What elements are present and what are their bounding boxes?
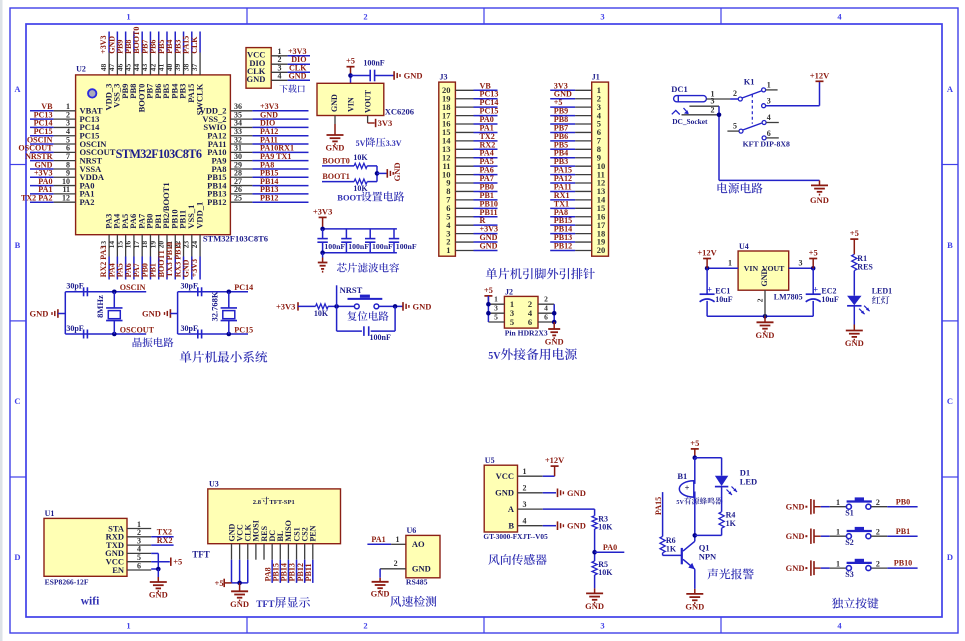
svg-text:CLK: CLK [190,36,199,54]
U2 pin 41 PB5 with net label PB5 [157,32,172,99]
svg-text:ESP8266-12F: ESP8266-12F [45,577,89,586]
svg-text:1K: 1K [726,519,737,528]
module U6 RS485 body [406,526,440,586]
svg-text:GND: GND [480,241,498,250]
svg-text:RX2: RX2 [157,536,173,545]
capacitor C1 100nF decoupling [317,229,345,253]
DC1 pin 3 [689,97,719,107]
net label PC15 (32.768K cell) [234,325,253,334]
svg-text:+5: +5 [346,56,355,66]
U2 pin 26 PB13 with net label PB13 [207,185,308,199]
connector J2 body [504,288,538,329]
U2 pin 45 PB8 with net label PB8 [124,32,139,99]
label 独立按键 [832,598,879,609]
svg-text:GND: GND [756,330,775,340]
svg-text:1: 1 [836,498,840,507]
svg-text:LED1: LED1 [872,286,892,295]
regulator U4 LM7805 body [738,242,803,301]
svg-text:GND: GND [786,502,805,512]
DC socket barrel [674,96,707,102]
svg-text:PB1: PB1 [896,527,910,536]
U2 pin 46 PB9 with net label PB9 [115,32,130,99]
net label OSCIN (8MHz cell) [120,283,146,292]
capacitor 30pF top (8MHz cell) [66,282,87,297]
J3 pin 5 net PB11 [446,208,497,222]
U2 pin 13 PA3 with net label RX2 PA3 [99,214,114,280]
U2 pin 48 VDD_3 with net label +3V3 [99,32,114,111]
svg-text:1: 1 [494,295,498,304]
svg-text:D: D [947,552,953,562]
J1 pin 9 net PB4 [550,149,601,163]
svg-text:EN: EN [112,565,125,575]
U2 pin 11 PA1 with net label PA1 [30,185,94,199]
op-amp U2 STM32F103C8T6 body [76,65,268,244]
net label NRST with wire [337,285,363,306]
wire DC1 pins 2-3 junction [717,106,722,180]
svg-text:NPN: NPN [699,551,717,561]
svg-text:J3: J3 [440,73,448,82]
U2 pin 3 PC14 with net label PC14 [30,119,100,133]
power port +5 wifi [171,557,182,567]
U2 pin 5 OSCIN with net label OSCIN [27,135,107,149]
wire BOOT1 [322,181,354,183]
svg-text:5: 5 [733,121,737,130]
svg-text:PC15: PC15 [234,325,253,334]
svg-text:24: 24 [190,241,199,249]
svg-text:PB12: PB12 [207,197,226,207]
svg-text:2: 2 [733,89,737,98]
wire crystal bottom (8MHz cell) [65,332,146,337]
svg-text:4: 4 [544,304,548,313]
J3 pin 15 net PA1 [442,123,498,137]
U2 pin 31 PA10 with net label PA10RX1 [207,144,308,158]
svg-text:1: 1 [836,559,840,568]
wire LED branch [721,458,723,476]
svg-text:+: + [685,482,690,492]
K1 terminal 2 and blade [733,89,761,101]
module U3 TFT body [208,480,341,544]
svg-text:100nF: 100nF [348,242,369,251]
svg-text:GND: GND [845,338,864,348]
label Pin HDR2X3 [505,329,548,338]
U2 pin 6 OSCOUT with net label OSCOUT [18,144,115,158]
buzzer B1 [677,471,693,497]
U2 pin 29 PA8 with net label PA8 [212,160,309,174]
J3 pin 7 net PB1 [446,191,497,205]
transistor Q1 NPN [682,541,717,569]
U1 pin 2 RXD [106,528,152,542]
ground LED1 [845,325,864,349]
svg-text:C: C [947,396,953,406]
wire base [663,553,682,556]
svg-text:GND: GND [142,309,161,319]
svg-text:U1: U1 [45,509,55,518]
wire R1 to LED1 [853,271,855,296]
wire U1 GND bend [151,553,158,569]
wire +5 vertical J2 [486,296,491,322]
svg-text:A: A [947,84,954,94]
K1 terminal 4 [762,113,779,124]
svg-text:TFT: TFT [256,600,275,610]
wire U5 VCC to +12V [543,475,555,477]
resistor R4 1K [719,511,737,529]
resistor 10K BOOT0 [353,153,368,169]
svg-text:S3: S3 [845,570,853,579]
svg-text:6: 6 [544,312,548,321]
power port GND pin2 [558,488,586,498]
U2 pin 37 SWCLK with net label CLK [190,32,205,116]
svg-text:10K: 10K [314,309,329,318]
svg-text:OSCIN: OSCIN [120,283,146,292]
svg-text:B: B [947,240,953,250]
svg-text:GND: GND [30,309,49,319]
svg-text:+3V3: +3V3 [276,301,295,311]
net label PC14 (32.768K cell) [234,283,253,292]
wire crystal top (32.768K cell) [178,290,248,295]
svg-text:8MHz: 8MHz [95,295,105,318]
U2 pin 2 PC13 with net label PC13 [30,110,99,124]
J3 pin 1 net GND [446,241,497,255]
J3 pin 4 net R [446,216,497,230]
push button S2 net PB1 [786,527,918,547]
DC1 pin 2 [682,105,720,115]
J3 pin 17 net PC15 [442,107,498,121]
svg-text:30pF: 30pF [66,282,83,291]
svg-text:U4: U4 [739,242,749,251]
wire D1 to R4 [721,487,723,512]
svg-text:GND: GND [230,599,249,609]
wire R5 to gnd [594,575,596,588]
svg-text:+5: +5 [484,285,493,295]
svg-text:3: 3 [600,12,604,22]
J1 pin 19 net PB13 [550,233,605,247]
U2 pin 38 PA15 with net label PA15 [182,32,197,103]
wire DC1 pin1 to switch [730,98,738,100]
svg-text:2: 2 [876,527,880,536]
module U1 ESP8266-12F body [44,509,127,586]
svg-text:GND: GND [567,521,586,531]
U4 pin 2 gnd [755,290,765,316]
svg-text:PB12: PB12 [554,241,572,250]
svg-text:5V: 5V [356,139,366,148]
svg-text:AO: AO [412,539,425,549]
label 单片机最小系统 [180,351,268,363]
J3 pin 11 net PA5 [442,157,497,171]
U2 pin 16 PA6 with net label PA6 [124,214,139,280]
connector download header body [246,48,271,89]
label BOOT设置电路 [337,191,404,202]
U2 pin 7 NRST with net label NRSTR [25,152,102,166]
svg-text:GND: GND [545,337,564,347]
svg-text:+12V: +12V [545,455,565,465]
svg-text:100nF: 100nF [370,333,391,342]
wire regulator GND down [334,116,336,130]
J3 pin 19 net PC13 [442,90,498,104]
U2 pin 43 PB7 with net label PB7 [140,32,155,99]
push button S1 net PB0 [786,497,918,517]
svg-text:3: 3 [523,500,527,509]
label wifi [81,596,100,608]
svg-text:+5: +5 [173,557,182,567]
label 单片机引脚外引排针 [486,268,595,279]
U2 pin 27 PB14 with net label PB14 [207,177,308,191]
J2 pin 2 [528,295,554,310]
wire crystal bottom (32.768K cell) [178,332,248,337]
J3 pin 13 net RX2 [442,140,498,154]
label DC_Socket [672,117,708,126]
label 风向传感器 [488,554,546,565]
designator DC1 [671,84,688,94]
svg-text:VCC: VCC [496,471,514,481]
switch K1 designator [744,77,755,87]
U6 pin 2 GND [380,559,406,578]
J1 pin 16 net PA8 [550,208,605,222]
svg-text:+5: +5 [690,438,699,448]
svg-text:NRST: NRST [340,285,363,295]
download header pin 1 VCC net +3V3 [247,47,310,60]
power port GND crystal (32.768K cell) [142,309,178,319]
capacitor 100nF at regulator input [363,59,384,82]
svg-text:1: 1 [126,12,130,22]
push button S3 net PB10 [786,559,918,579]
connector J1 pin header body [592,73,609,257]
svg-text:D: D [14,552,20,562]
U2 pin 47 VSS_3 with net label GND [107,32,122,108]
label 5V外接备用电源 [488,348,577,362]
svg-text:+3V3: +3V3 [190,259,199,277]
svg-text:1K: 1K [666,545,677,554]
svg-text:1: 1 [767,81,771,90]
U3 pin BL net PB15 [271,531,285,583]
U3 pin CS2 net PB12 [296,527,310,583]
svg-text:25: 25 [234,193,242,202]
svg-text:TFT: TFT [192,550,210,560]
U2 pin 39 PB3 with net label PB3 [173,32,188,99]
U1 pin 3 TXD [106,536,151,550]
U3 pin MOSI [252,520,261,560]
svg-text:OSCOUT: OSCOUT [120,325,155,334]
U2 pin 22 PB11 with net label RX3 PB11 [173,210,188,280]
DC1 pin 1 [706,89,730,99]
label 5V有源蜂鸣器 [676,497,722,506]
U3 pin PEN net PB11 [304,525,318,583]
wire VIN to +5 [348,73,353,83]
power flag +5 alarm [690,438,699,458]
svg-text:12: 12 [62,193,70,202]
J1 pin 15 net TX1 [550,199,605,213]
ground filter caps [318,253,328,272]
wire BOOT0 res to junction [367,165,377,167]
U2 pin 10 PA0 with net label PA0 [30,177,94,191]
wire LED1 to gnd [853,306,855,325]
power port +5 TFT [215,578,232,588]
svg-text:B: B [508,521,514,531]
svg-text:PA15: PA15 [654,497,663,515]
power flag +5 at U4 [809,248,818,269]
push button reset switch [348,295,383,309]
U2 pin 24 VDD_1 with net label +3V3 [190,202,205,280]
label TFT [192,550,210,560]
svg-text:20: 20 [597,245,606,255]
svg-text:3.3V: 3.3V [386,139,402,148]
ground U4 [756,316,775,340]
wire K1-3 to +12V [766,81,820,105]
svg-text:S2: S2 [845,538,853,547]
svg-text:GND: GND [392,163,402,182]
U2 pin 20 PB2/BOOT1 with net label BOOT1 [157,182,172,279]
U2 pin 17 PA7 with net label PA7 [132,213,147,279]
svg-text:+5: +5 [809,248,818,258]
J2 pin 6 [528,312,554,327]
svg-text:2: 2 [523,484,527,493]
J1 pin 14 net RX1 [550,191,606,205]
wire VOUT down [368,116,375,124]
label 电源电路 [717,183,762,194]
svg-text:1: 1 [836,527,840,536]
power port GND of BOOT divider [387,163,402,182]
label 复位电路 [347,311,388,321]
J3 pin 12 net PA4 [442,149,498,163]
capacitor 100nF reset [364,326,391,342]
svg-text:+: + [813,284,818,294]
power flag +5 at J2 [484,285,493,304]
svg-text:U3: U3 [209,480,219,489]
wire emitter to gnd [694,569,696,589]
K1 terminal 3 [762,96,771,107]
svg-text:30pF: 30pF [181,324,198,333]
U3 pin CS1 net PB13 [288,527,302,583]
J3 pin 16 net PA0 [442,115,498,129]
J1 pin 11 net PA15 [550,166,605,180]
svg-text:PA1: PA1 [371,535,385,544]
svg-text:GND: GND [685,601,704,611]
wire R4 to collector node [695,528,722,535]
svg-text:3: 3 [767,96,771,105]
resistor R3 10K [592,514,613,531]
svg-text:6: 6 [528,317,532,327]
svg-text:2: 2 [876,559,880,568]
svg-text:U6: U6 [407,526,417,535]
U2 pin 40 PB4 with net label PB4 [165,32,180,99]
wire button to gnd [378,304,403,309]
svg-text:10K: 10K [353,153,368,162]
label 下载口 [280,85,305,93]
J3 pin 10 net PA6 [442,166,498,180]
label KFT DIP-8X8 [743,140,790,149]
svg-text:B1: B1 [677,471,687,481]
J1 pin 12 net PA12 [550,174,605,188]
svg-text:GND: GND [330,94,339,112]
wire BOOT1 res to junction [367,181,377,183]
svg-text:BOOT: BOOT [337,193,362,203]
svg-text:GND: GND [786,563,805,573]
J3 pin 18 net PC14 [442,98,498,112]
ground U6 [371,578,390,599]
capacitor C3 100nF decoupling [365,229,393,253]
ground regulator [326,130,345,153]
svg-text:6: 6 [137,561,141,570]
U5 pin 4 B [508,517,542,531]
power flag +12V at U4 [697,248,717,269]
U4 pin 3 wire [789,259,816,271]
U5 pin 2 GND [495,484,543,498]
svg-text:VIN: VIN [744,264,759,273]
svg-text:GND: GND [810,195,829,205]
svg-text:GND: GND [567,488,586,498]
svg-text:GND: GND [495,488,514,498]
J1 pin 13 net PA11 [550,182,605,196]
svg-text:+: + [707,284,712,294]
svg-text:A: A [14,84,21,94]
svg-text:1: 1 [126,621,130,631]
power flag +12V sensor [545,455,565,476]
resistor R5 10K [592,560,613,577]
J1 pin 3 net +5 [550,98,601,112]
svg-text:RS485: RS485 [406,578,428,587]
wire U5 B pin4 [543,525,556,527]
svg-text:PA2: PA2 [80,197,95,207]
U2 pin 44 BOOT0 with net label BOOT0 [132,27,147,113]
capacitor C4 100nF decoupling [389,229,417,253]
svg-text:+3V3: +3V3 [313,206,332,216]
svg-text:TX2 PA2: TX2 PA2 [21,193,53,202]
wire U5 GND pin2 [543,492,556,494]
svg-text:2.8: 2.8 [253,499,262,506]
resistor R6 1K [660,536,677,553]
svg-text:GND: GND [326,143,345,153]
U2 pin 9 VDDA with net label +3V3 [30,169,105,183]
svg-text:BOOT1: BOOT1 [322,172,349,181]
capacitor 30pF top (32.768K cell) [181,282,202,297]
wire cap to GND bar [375,75,395,77]
svg-text:GND: GND [247,74,266,84]
U5 pin 1 VCC [496,467,543,481]
label 风速检测 [390,596,436,607]
J1 pin 7 net PB6 [550,132,602,146]
svg-text:VOUT: VOUT [363,89,372,113]
U6 pin 1 AO [391,535,406,545]
svg-text:DC_Socket: DC_Socket [672,117,708,126]
J3 pin 20 net VB [442,81,498,95]
svg-text:PB11: PB11 [304,564,313,582]
svg-text:GND: GND [289,71,307,80]
U1 pin 4 GND [105,545,151,559]
svg-text:10uF: 10uF [715,295,732,304]
U2 pin 4 PC15 with net label PC15 [30,127,99,141]
power port GND right of input cap [394,71,422,81]
U2 pin 14 PA4 with net label PA4 [107,213,122,279]
svg-text:6: 6 [767,129,771,138]
J1 pin 5 net PB8 [550,115,601,129]
ground power circuit [810,180,829,205]
capacitor EC2 10uF [806,268,839,316]
wire BOOT junction vertical [375,166,388,182]
U3 pin DC net PA8 [263,530,277,583]
svg-text:1: 1 [523,467,527,476]
svg-text:A: A [508,504,515,514]
svg-text:XC6206: XC6206 [385,107,414,117]
ground alarm [685,589,704,612]
svg-text:2: 2 [394,559,398,568]
svg-text:+12V: +12V [810,70,830,80]
power flag +5 above U regulator [346,56,355,76]
label 声光报警 [707,568,753,579]
ground J2 [545,322,564,347]
power flag +5 LED [850,228,859,254]
K1 gang dashed link [751,94,753,123]
U2 pin 28 PB15 with net label PB15 [207,169,308,183]
svg-text:GND: GND [585,601,604,611]
